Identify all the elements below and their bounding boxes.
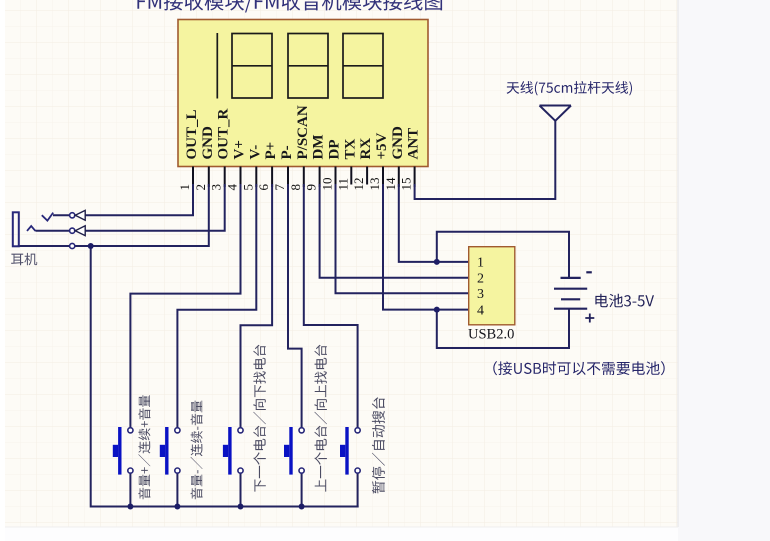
label button S3: 下一个电台／向下找电台 bbox=[253, 345, 266, 492]
junction bus at button S3 bbox=[238, 504, 244, 510]
wire pin14 GND to USB pin1 and battery minus bbox=[399, 185, 569, 277]
wire pin15 ANT to antenna bbox=[415, 121, 556, 199]
svg-text:RX: RX bbox=[358, 138, 374, 160]
push button S2 bbox=[160, 427, 180, 475]
wire pin3 OUT_R to jack ring contact bbox=[85, 185, 225, 231]
pin 3 stub bbox=[224, 167, 226, 188]
svg-text:OUT_R: OUT_R bbox=[216, 108, 232, 159]
svg-text:P+: P+ bbox=[263, 142, 279, 160]
label 耳机 bbox=[11, 253, 37, 265]
svg-text:3: 3 bbox=[477, 287, 484, 302]
USB connector USB2.0 body bbox=[469, 247, 515, 325]
svg-text:USB2.0: USB2.0 bbox=[468, 327, 514, 343]
label 电池3-5V bbox=[595, 294, 654, 308]
svg-text:V+: V+ bbox=[232, 140, 248, 159]
jack tip plug triangle bbox=[75, 210, 85, 220]
svg-text:4: 4 bbox=[225, 184, 240, 191]
pin 10 stub bbox=[335, 167, 337, 188]
FM module U1 body bbox=[178, 20, 428, 167]
svg-text:3: 3 bbox=[209, 184, 224, 191]
svg-text:TX: TX bbox=[342, 138, 358, 159]
jack ring switch symbol bbox=[27, 226, 35, 231]
svg-text:DM: DM bbox=[311, 135, 327, 160]
jack sleeve contact circle bbox=[70, 243, 75, 248]
svg-text:11: 11 bbox=[335, 178, 350, 191]
junction jack sleeve / ground bus bbox=[88, 243, 94, 249]
svg-text:15: 15 bbox=[399, 178, 414, 191]
jack tip contact circle bbox=[70, 213, 75, 218]
pin 7 stub bbox=[287, 167, 289, 188]
svg-text:2: 2 bbox=[193, 184, 208, 191]
7-segment display digit "1" bbox=[216, 33, 218, 99]
pin 5 stub bbox=[255, 167, 257, 188]
svg-text:7: 7 bbox=[272, 184, 287, 191]
7-segment display digit box 3 bbox=[288, 34, 328, 99]
svg-text:14: 14 bbox=[383, 177, 398, 191]
wire button S1 bottom contact to ground bus bbox=[129, 473, 131, 506]
svg-text:P-: P- bbox=[279, 145, 295, 159]
jack ring wire segment bbox=[35, 230, 69, 232]
label button S1: 音量+／连续+音量 bbox=[138, 395, 150, 499]
jack tip wire segment bbox=[53, 214, 70, 216]
svg-text:8: 8 bbox=[288, 184, 303, 191]
svg-text:OUT_L: OUT_L bbox=[184, 109, 200, 159]
wire pin13 +5V to USB pin4 and battery plus bbox=[383, 185, 569, 348]
junction USB pin4 / battery plus bbox=[434, 307, 440, 313]
wire button S2 bottom contact to ground bus bbox=[176, 473, 178, 506]
junction USB pin1 / battery minus bbox=[434, 259, 440, 265]
jack ring contact circle bbox=[70, 228, 75, 233]
label 天线(75cm拉杆天线) bbox=[507, 81, 632, 95]
svg-text:V-: V- bbox=[247, 145, 263, 160]
pin 1 stub bbox=[192, 167, 194, 188]
label button S2: 音量-／连续-音量 bbox=[191, 401, 203, 500]
junction bus at button S4 bbox=[299, 504, 305, 510]
label button S5: 暂停／自动搜台 bbox=[372, 397, 385, 493]
headphone jack J1 body bar bbox=[13, 212, 19, 246]
pin 13 stub bbox=[382, 167, 384, 188]
antenna symbol bbox=[540, 106, 572, 121]
svg-text:P/SCAN: P/SCAN bbox=[295, 105, 311, 159]
pin 11 stub bbox=[350, 167, 352, 185]
svg-text:5: 5 bbox=[240, 184, 255, 191]
svg-text:DP: DP bbox=[327, 140, 343, 160]
pin 14 stub bbox=[398, 167, 400, 188]
svg-text:GND: GND bbox=[390, 126, 406, 160]
pin 6 stub bbox=[271, 167, 273, 188]
jack tip switch symbol bbox=[42, 213, 53, 221]
pin 12 stub bbox=[366, 167, 368, 185]
svg-text:+5V: +5V bbox=[374, 132, 390, 159]
svg-text:GND: GND bbox=[200, 126, 216, 160]
pin 8 stub bbox=[303, 167, 305, 188]
wire pin4 V+ to button S1 bbox=[130, 185, 240, 428]
battery BT1 plates bbox=[554, 278, 587, 309]
svg-text:ANT: ANT bbox=[406, 128, 422, 160]
wire pin6 P+ to button S3 bbox=[241, 185, 273, 428]
wire pin9 DM to USB pin2 bbox=[320, 185, 469, 278]
svg-text:1: 1 bbox=[477, 256, 484, 271]
wire jack sleeve to bar bbox=[19, 245, 70, 247]
pin 4 stub bbox=[240, 167, 242, 188]
7-segment display digit box 2 bbox=[232, 34, 272, 99]
wire button S5 bottom contact to ground bus bbox=[357, 473, 359, 506]
wire pin5 V- to button S2 bbox=[177, 185, 256, 428]
svg-text:12: 12 bbox=[351, 178, 366, 191]
pin 2 stub bbox=[208, 167, 210, 188]
svg-text:1: 1 bbox=[177, 184, 192, 191]
wire pin8 P/SCAN to button S5 bbox=[304, 185, 358, 428]
title: FM接收模块/FM收音机模块接线图 bbox=[137, 0, 442, 13]
push button S4 bbox=[284, 427, 304, 475]
wire pin1 OUT_L to jack tip contact bbox=[85, 185, 193, 215]
pin 9 stub bbox=[319, 167, 321, 188]
wire pin10 DP to USB pin3 bbox=[336, 185, 469, 293]
svg-text:6: 6 bbox=[256, 184, 271, 191]
wire button S3 bottom contact to ground bus bbox=[240, 473, 242, 506]
svg-text:13: 13 bbox=[367, 178, 382, 191]
svg-text:4: 4 bbox=[477, 303, 484, 318]
label （接USB时可以不需要电池） bbox=[493, 361, 664, 375]
junction bus at button S1 bbox=[127, 504, 133, 510]
wire ground-bus vertical from jack junction bbox=[91, 246, 358, 507]
7-segment display digit box 4 bbox=[343, 34, 383, 99]
battery plus sign bbox=[585, 314, 594, 323]
svg-text:2: 2 bbox=[477, 272, 484, 287]
battery minus sign bbox=[586, 271, 592, 273]
svg-text:9: 9 bbox=[304, 184, 319, 191]
junction bus at button S2 bbox=[174, 504, 180, 510]
wire pin7 P- to button S4 bbox=[288, 185, 302, 428]
wire pin2 GND to jack sleeve and ground bus bbox=[75, 185, 209, 246]
pin 15 stub bbox=[414, 167, 416, 188]
jack ring plug triangle bbox=[75, 226, 85, 236]
push button S5 bbox=[340, 427, 360, 475]
label button S4: 上一个电台／向上找电台 bbox=[314, 345, 327, 492]
push button S3 bbox=[223, 427, 243, 475]
svg-text:10: 10 bbox=[320, 178, 335, 191]
wire button S4 bottom contact to ground bus bbox=[301, 473, 303, 506]
push button S1 bbox=[113, 427, 133, 475]
